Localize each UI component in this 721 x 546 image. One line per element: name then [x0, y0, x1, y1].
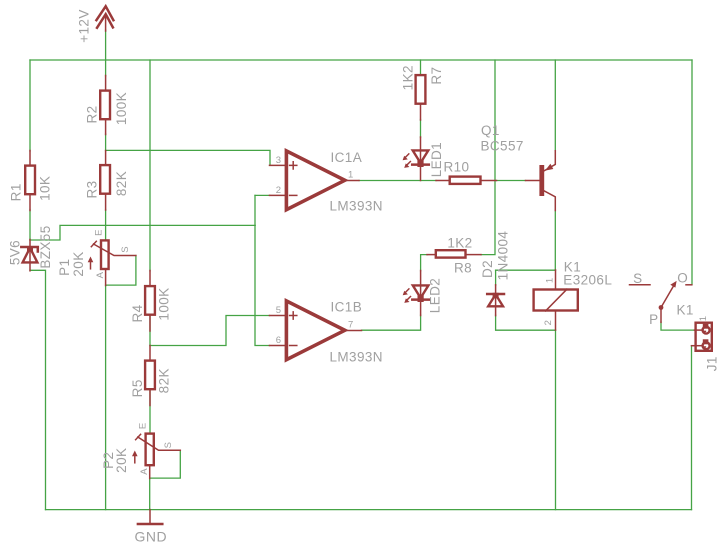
wire P1 bottom column down to rail: [105, 285, 107, 510]
svg-text:LM393N: LM393N: [330, 350, 383, 365]
svg-text:1: 1: [698, 316, 709, 322]
zener diode D1 5V6 BZX55: [8, 225, 54, 270]
wire P2 bottom to rail and GND: [149, 478, 151, 510]
wire D2 cathode up to coil node: [495, 270, 497, 285]
wire bottom GND rail: [46, 509, 692, 511]
svg-text:7: 7: [348, 320, 354, 331]
potentiometer P2 20K: [101, 422, 180, 478]
wire R8 left lead to LED2 anode: [421, 255, 428, 271]
wire bus down to R8 right lead: [481, 60, 495, 255]
resistor R5: [130, 346, 172, 406]
wire R2 bottom junction node: [105, 134, 107, 151]
op-amp IC1A LM393N: [270, 150, 383, 214]
supply +12V symbol: [77, 6, 114, 42]
LED LED2: [403, 271, 443, 316]
svg-text:R2: R2: [85, 105, 100, 123]
connector J1: [692, 316, 720, 372]
svg-text:Q1: Q1: [481, 123, 500, 138]
svg-text:K1: K1: [677, 303, 694, 318]
wire REF column vertical to IC1B minus input: [255, 195, 270, 345]
wire top +12V bus: [30, 59, 692, 61]
svg-text:1: 1: [545, 277, 556, 283]
LED LED1: [403, 137, 445, 181]
wire node REF jog from zener top to comparator inputs: [30, 225, 255, 240]
svg-text:BC557: BC557: [481, 139, 524, 154]
wire R5 bottom to P2 top: [149, 390, 151, 432]
svg-text:82K: 82K: [157, 368, 172, 393]
wire J1 pin 2 down to rail: [691, 346, 693, 510]
wire contact P to J1 pin 1: [661, 322, 695, 330]
wire coil bottom node down to rail: [555, 330, 557, 509]
svg-text:E: E: [137, 422, 148, 429]
svg-text:O: O: [677, 271, 688, 286]
svg-text:+12V: +12V: [77, 9, 92, 43]
svg-text:A: A: [95, 271, 106, 278]
svg-text:R10: R10: [444, 160, 470, 175]
svg-text:2: 2: [543, 320, 554, 326]
svg-text:E: E: [93, 229, 104, 236]
svg-text:20K: 20K: [114, 448, 129, 473]
wire R10 right lead to Q1 base: [497, 180, 526, 182]
ground GND symbol: [134, 510, 167, 545]
wire P1 wiper loop: [107, 256, 136, 286]
svg-text:GND: GND: [134, 529, 167, 545]
wire zener bottom to left rail corner: [30, 270, 46, 509]
svg-text:100K: 100K: [157, 287, 172, 320]
wire divider node to IC1A plus input: [106, 150, 270, 165]
resistor R7: [400, 65, 444, 120]
svg-text:82K: 82K: [114, 171, 129, 196]
wire bus to R1 top: [29, 60, 31, 151]
svg-text:IC1B: IC1B: [331, 300, 363, 315]
relay coil K1 E3206L: [534, 260, 613, 331]
wire REF column to IC1A minus input: [255, 194, 270, 196]
svg-text:R7: R7: [429, 67, 444, 85]
svg-text:5: 5: [276, 305, 282, 316]
svg-text:10K: 10K: [37, 176, 52, 201]
svg-text:1K2: 1K2: [400, 65, 415, 90]
svg-text:R3: R3: [85, 180, 100, 198]
wire IC1A output to LED1/R10 junction: [359, 180, 437, 182]
wire R4/R5 node to IC1B plus input: [150, 316, 270, 346]
svg-text:R1: R1: [8, 183, 23, 201]
wire +12V symbol to bus and down to R2 top: [105, 30, 107, 76]
svg-text:LED2: LED2: [428, 278, 443, 313]
wire R7 bottom to LED1 anode: [420, 120, 422, 138]
wire R4 bottom to R5 top node: [149, 315, 151, 346]
svg-text:S: S: [120, 246, 131, 253]
svg-text:20K: 20K: [71, 251, 86, 276]
svg-text:3: 3: [276, 155, 282, 166]
svg-text:2: 2: [276, 185, 282, 196]
wire bus to R7 top: [420, 60, 422, 75]
resistor R10: [436, 160, 497, 184]
wire bus right edge down to contact O: [691, 60, 693, 285]
svg-text:J1: J1: [705, 356, 720, 371]
svg-text:D2: D2: [480, 260, 495, 278]
resistor R3: [85, 151, 129, 211]
svg-text:IC1A: IC1A: [331, 150, 363, 165]
wire R3 bottom to P1 top: [105, 210, 107, 240]
resistor R1: [8, 151, 52, 211]
svg-text:R8: R8: [454, 261, 472, 276]
potentiometer P1 20K: [57, 229, 136, 285]
svg-text:1N4004: 1N4004: [496, 231, 511, 281]
resistor R4: [130, 271, 172, 332]
wire D2 anode down to coil bottom node: [496, 315, 556, 330]
resistor R8: [427, 236, 481, 276]
svg-text:E3206L: E3206L: [563, 273, 612, 288]
svg-text:BZX55: BZX55: [38, 225, 53, 268]
wire bus down to R4 top: [149, 60, 151, 271]
svg-text:P: P: [649, 312, 658, 327]
svg-text:1: 1: [348, 170, 354, 181]
svg-text:LM393N: LM393N: [330, 199, 383, 214]
svg-text:LED1: LED1: [429, 142, 444, 177]
svg-text:5V6: 5V6: [8, 240, 23, 265]
svg-text:S: S: [633, 271, 642, 286]
svg-text:R4: R4: [130, 304, 145, 322]
op-amp IC1B LM393N: [270, 300, 383, 365]
svg-text:100K: 100K: [114, 92, 129, 125]
svg-text:P1: P1: [57, 259, 72, 276]
svg-text:1K2: 1K2: [447, 236, 472, 251]
resistor R2: [85, 76, 129, 135]
diode D2 1N4004: [480, 231, 511, 316]
svg-text:R5: R5: [130, 379, 145, 397]
wire node coil top: Q1 collector to D2 and K1 pin 1: [496, 269, 556, 271]
svg-text:A: A: [139, 468, 150, 475]
wire LED2 cathode to IC1B output: [362, 315, 421, 330]
wire R1 bottom to zener D1 top: [29, 210, 31, 241]
wire P2 wiper loop: [151, 450, 181, 478]
svg-text:S: S: [163, 441, 174, 448]
svg-text:6: 6: [276, 335, 282, 346]
wire bus down to Q1 emitter: [554, 60, 556, 151]
wire Q1 collector down to coil node: [554, 210, 556, 270]
relay contact K1: [630, 271, 694, 328]
transistor Q1 BC557: [481, 123, 556, 211]
